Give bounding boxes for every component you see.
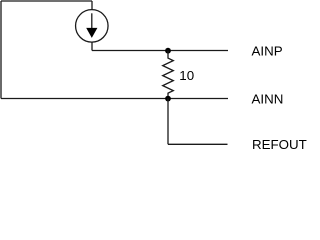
wire from AINN node down to REFOUT net [167,99,169,145]
wire AINN net [1,98,228,100]
wire AINP net [92,50,228,52]
junction node AINN [165,96,171,102]
svg-text:REFOUT: REFOUT [252,137,307,152]
current source I1 [76,10,109,43]
junction node AINP [165,48,171,54]
svg-text:10: 10 [179,68,194,83]
resistor R1 [163,51,174,99]
svg-text:AINN: AINN [252,91,284,106]
wire from current source output to AINP net [91,42,93,50]
wire REFOUT net [168,143,228,145]
wire left rail [0,1,2,99]
wire top (left rail to current source) [1,1,92,10]
svg-text:AINP: AINP [252,43,283,58]
